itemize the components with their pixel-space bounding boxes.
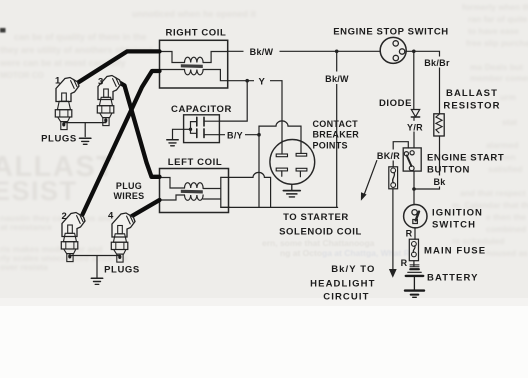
svg-text:stat: stat	[502, 117, 517, 127]
spark plug 2	[61, 213, 85, 262]
svg-text:POINTS: POINTS	[313, 141, 348, 151]
plug wire 4 (thick)	[132, 200, 160, 216]
wire Bk/W vertical	[336, 51, 338, 207]
svg-text:BK/R: BK/R	[377, 151, 400, 161]
ground plugs 1-3	[80, 138, 91, 144]
wire button to ignition switch	[413, 171, 415, 205]
ghost bleed-through text top-left	[0, 9, 256, 80]
fuse (headlight feed)	[389, 167, 398, 189]
svg-text:and that respect: and that respect	[460, 188, 526, 198]
capacitor junction dot	[189, 128, 192, 131]
svg-text:Bk/Br: Bk/Br	[424, 58, 450, 68]
svg-text:PLUGS: PLUGS	[41, 134, 77, 145]
arrow to starter solenoid	[364, 161, 377, 195]
svg-text:HEADLIGHT: HEADLIGHT	[310, 279, 375, 290]
svg-text:BATTERY: BATTERY	[427, 273, 479, 284]
svg-text:1: 1	[55, 76, 61, 87]
svg-text:CONTACT: CONTACT	[313, 119, 359, 129]
label B/Y	[225, 130, 245, 141]
wire down to diode	[413, 51, 415, 109]
svg-text:free slip purchase: free slip purchase	[466, 38, 528, 48]
svg-text:Y/R: Y/R	[407, 122, 423, 132]
svg-text:CAPACITOR: CAPACITOR	[171, 104, 232, 115]
svg-text:RIGHT COIL: RIGHT COIL	[166, 28, 227, 39]
main fuse	[409, 239, 418, 261]
diode	[411, 110, 419, 117]
svg-text:Bk: Bk	[433, 177, 446, 187]
svg-text:2: 2	[62, 211, 68, 222]
right coil transformer windings	[160, 52, 228, 81]
svg-text:ern, some that Chattanooga: ern, some that Chattanooga	[262, 238, 375, 248]
capacitor ground	[167, 140, 178, 146]
svg-text:Bk/Y TO: Bk/Y TO	[331, 264, 375, 275]
svg-text:housed as: housed as	[486, 248, 528, 258]
wire B/Y from capacitor	[219, 134, 259, 136]
svg-text:ma Deals but: ma Deals but	[470, 62, 523, 72]
wire down to headlight circuit	[392, 189, 394, 269]
wire ignition to fuse	[414, 228, 416, 239]
label Bk	[431, 176, 449, 187]
svg-text:SWITCH: SWITCH	[432, 220, 476, 231]
plug wire 2 (thick)	[83, 71, 160, 215]
node Bk/W junction	[335, 50, 339, 54]
right coil R box	[160, 40, 228, 88]
ground plugs 2-4	[91, 278, 102, 284]
ghost column right side	[452, 2, 528, 258]
svg-text:combined: combined	[486, 224, 526, 234]
svg-text:CIRCUIT: CIRCUIT	[323, 292, 369, 303]
wire plugs 1-3 to ground	[64, 123, 106, 137]
ghost paragraph left-mid	[0, 213, 128, 272]
wire diode to start button	[413, 117, 415, 148]
svg-text:3: 3	[98, 77, 104, 88]
ignition switch	[404, 205, 427, 228]
wire fuse to battery	[413, 261, 415, 266]
svg-text:LEFT COIL: LEFT COIL	[168, 157, 222, 168]
svg-text:BUTTON: BUTTON	[427, 165, 470, 176]
contact breaker points circle	[270, 140, 315, 185]
engine stop switch	[380, 37, 406, 63]
label Bk/W vertical	[323, 72, 351, 85]
left coil L box	[160, 169, 229, 213]
label Y/R	[406, 121, 425, 132]
svg-text:SOLENOID COIL: SOLENOID COIL	[279, 227, 362, 238]
svg-text:member comes: member comes	[470, 73, 528, 83]
svg-text:IGNITION: IGNITION	[432, 208, 483, 219]
svg-text:ran far of quite a: ran far of quite a	[468, 14, 528, 24]
svg-text:satisfied: satisfied	[488, 164, 523, 174]
svg-text:BREAKER: BREAKER	[313, 130, 360, 140]
svg-text:formerly when the w: formerly when the w	[462, 2, 528, 12]
svg-text:ENGINE START: ENGINE START	[427, 153, 504, 164]
svg-text:WIRES: WIRES	[113, 191, 144, 201]
svg-text:unnoticed when he opened it: unnoticed when he opened it	[132, 9, 256, 19]
svg-text:MAIN FUSE: MAIN FUSE	[424, 246, 486, 257]
svg-text:R: R	[406, 229, 413, 239]
svg-text:PLUGS: PLUGS	[104, 265, 140, 276]
svg-text:ENGINE STOP SWITCH: ENGINE STOP SWITCH	[333, 26, 449, 37]
label Bk/Br	[423, 57, 451, 68]
svg-text:ESIST: ESIST	[0, 176, 78, 206]
svg-text:re scheduled: re scheduled	[452, 236, 504, 246]
capacitor ground wire	[173, 129, 184, 139]
ballast resistor	[434, 114, 444, 136]
svg-text:Bk/W: Bk/W	[325, 74, 349, 84]
wire stop switch to right	[406, 51, 439, 114]
spark plug 3	[97, 76, 121, 126]
svg-text:over resista: over resista	[0, 262, 48, 272]
capacitor box	[184, 115, 220, 143]
ghost rows under solenoid text	[262, 238, 410, 258]
svg-text:TO STARTER: TO STARTER	[283, 212, 349, 223]
svg-text:alarmed: alarmed	[486, 140, 519, 150]
svg-text:MOTOR CO: MOTOR CO	[0, 71, 44, 80]
wire left coil to enclosure (hop over B/Y drop)	[229, 172, 271, 207]
node Bk junction	[412, 187, 416, 191]
svg-text:4: 4	[108, 211, 114, 222]
node stop switch junction	[412, 50, 416, 54]
wire B/Y up and over to breaker (hop over Y line)	[259, 121, 301, 141]
breaker contacts	[276, 153, 307, 171]
wire Bk/W horizontal	[228, 50, 381, 52]
engine start button	[403, 148, 421, 171]
wire Y down to breaker	[281, 81, 283, 141]
breaker ground	[291, 184, 293, 190]
svg-text:B/Y: B/Y	[227, 131, 243, 141]
svg-text:RESISTOR: RESISTOR	[443, 101, 500, 112]
node Y junction	[245, 79, 249, 83]
svg-text:BALLAST: BALLAST	[446, 88, 498, 99]
svg-text:at resistance: at resistance	[0, 222, 52, 232]
svg-text:can be of quality of them in t: can be of quality of them in the	[14, 32, 147, 42]
svg-text:R: R	[401, 258, 408, 268]
node B/Y junction	[257, 133, 261, 137]
label Y	[254, 74, 270, 86]
svg-text:to have ease: to have ease	[468, 26, 519, 36]
wire B/Y down to bus	[258, 135, 260, 208]
left coil transformer windings	[160, 177, 230, 207]
wire button branch to Bk/R fuse	[393, 142, 408, 167]
svg-text:DIODE: DIODE	[379, 98, 412, 109]
plug wire 1 (thick)	[77, 51, 160, 83]
label BK/R	[376, 150, 402, 161]
ghost headline BALLAST left edge	[0, 151, 115, 206]
wire Y from coil	[228, 80, 282, 82]
svg-text:e then the: e then the	[486, 212, 526, 222]
svg-text:PLUG: PLUG	[116, 181, 142, 191]
svg-text:urm: urm	[500, 92, 517, 102]
svg-text:Y: Y	[259, 77, 266, 88]
svg-text:Bk/W: Bk/W	[250, 47, 274, 57]
svg-text:ng at Octoga at Chattga, What: ng at Octoga at Chattga, What R	[280, 248, 410, 258]
label Bk/W	[244, 45, 280, 57]
wire plugs 2-4 to ground	[70, 256, 120, 278]
wire resistor down to Bk corner	[414, 136, 440, 189]
spark plug 1	[55, 78, 79, 130]
capacitor plates	[197, 117, 204, 137]
arrow to headlight circuit	[389, 269, 397, 278]
spark plug 4	[111, 213, 135, 262]
wire Y vertical to capacitor	[219, 81, 247, 121]
battery	[405, 265, 424, 297]
plug wire 3 (thick)	[115, 80, 160, 177]
edge mark left	[0, 28, 6, 33]
wire bottom bus	[221, 206, 338, 208]
